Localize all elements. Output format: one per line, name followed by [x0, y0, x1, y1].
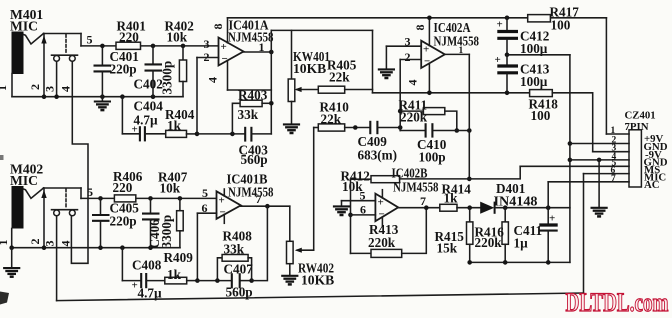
- CZ401 signal names: [644, 133, 668, 191]
- svg-text:1: 1: [0, 85, 9, 91]
- svg-text:220: 220: [119, 30, 139, 45]
- GND mid rail from C412/C413: [507, 55, 572, 263]
- svg-text:33k: 33k: [238, 107, 259, 122]
- svg-text:8: 8: [211, 24, 225, 30]
- M401 pin 3 wire: [56, 61, 58, 96]
- scan artifact bottom-left: [0, 292, 9, 305]
- svg-text:4: 4: [206, 77, 220, 83]
- M402 plug dashed line: [65, 189, 67, 209]
- CZ401 pin 6 wire (MIC): [584, 173, 630, 175]
- CZ401 pin 4 wire (GND): [570, 158, 629, 163]
- resistor R402: [179, 44, 186, 97]
- svg-text:220k: 220k: [400, 110, 428, 125]
- IC401A pin 8 (V+): [211, 18, 228, 43]
- M401 plug dashed line: [65, 35, 67, 55]
- CZ401 pin 2 wire (GND): [570, 143, 629, 145]
- svg-text:2: 2: [28, 239, 42, 245]
- resistor R418: [530, 90, 593, 152]
- resistor R414: [440, 204, 480, 211]
- IC402A pin 2 wire: [398, 60, 421, 131]
- ground (IC402B pin5): [333, 206, 350, 215]
- capacitor C410: [400, 123, 471, 137]
- svg-text:2: 2: [405, 50, 411, 64]
- svg-text:+: +: [495, 54, 501, 66]
- svg-text:15k: 15k: [437, 241, 458, 256]
- R412 left drop to inverting node: [348, 179, 353, 253]
- svg-text:1k: 1k: [444, 191, 459, 206]
- svg-text:220: 220: [113, 180, 133, 195]
- svg-text:3: 3: [204, 37, 210, 51]
- potentiometer RW402 wiper riser: [313, 128, 315, 251]
- resistor R407: [177, 196, 184, 248]
- feedback wire ch2: [197, 206, 267, 283]
- capacitor C402: [145, 44, 163, 97]
- svg-text:100p: 100p: [419, 150, 446, 165]
- svg-text:220p: 220p: [110, 214, 137, 229]
- svg-text:R409: R409: [164, 250, 194, 265]
- svg-text:10KB: 10KB: [293, 61, 326, 76]
- capacitor C405: [92, 196, 110, 248]
- MS wire from IC402A output node: [469, 166, 520, 179]
- svg-text:MIC: MIC: [10, 19, 38, 34]
- svg-text:+: +: [423, 44, 429, 56]
- svg-text:4.7µ: 4.7µ: [138, 286, 162, 301]
- ch2 ground rail: [9, 245, 180, 250]
- IC401A pin 2 wire: [195, 58, 219, 137]
- resistor R411: [400, 108, 459, 133]
- svg-text:AC: AC: [644, 179, 660, 191]
- ground (KW401): [283, 124, 300, 133]
- ground (IC402A pin3): [378, 69, 395, 78]
- svg-text:22k: 22k: [329, 70, 350, 85]
- resistor R409: [165, 277, 198, 284]
- CZ401 pin 1 wire (+9V): [606, 133, 629, 135]
- svg-text:2: 2: [28, 84, 42, 90]
- IC401B pin 6 wire: [195, 213, 216, 283]
- op-amp IC402B: [375, 190, 398, 226]
- resistor R408: [217, 255, 251, 281]
- svg-text:100µ: 100µ: [520, 74, 548, 89]
- svg-text:8: 8: [413, 25, 427, 31]
- wire output to KW401 feed: [271, 29, 372, 31]
- svg-text:NJM4558: NJM4558: [228, 30, 274, 45]
- resistor R403: [232, 100, 273, 134]
- IC402A pin 4 wire: [406, 63, 432, 95]
- capacitor C413 (electrolytic): [495, 53, 519, 96]
- ground (M402 pin1): [3, 248, 20, 277]
- M401 tip wire to node 5: [44, 34, 82, 46]
- svg-text:+: +: [549, 213, 555, 225]
- svg-text:R403: R403: [238, 87, 268, 102]
- ground (connector): [591, 208, 608, 217]
- svg-text:IN4148: IN4148: [494, 194, 538, 209]
- potentiometer KW401: [288, 30, 318, 124]
- connector CZ401: [629, 130, 641, 187]
- svg-text:100: 100: [551, 18, 571, 33]
- ground (ch1 input): [94, 97, 111, 110]
- M401 switch bar: [52, 54, 78, 56]
- svg-text:100: 100: [531, 108, 551, 123]
- svg-text:683(m): 683(m): [358, 148, 398, 163]
- svg-text:4: 4: [59, 241, 73, 247]
- svg-text:220k: 220k: [368, 235, 396, 250]
- svg-text:33k: 33k: [224, 242, 245, 257]
- svg-text:220k: 220k: [475, 235, 503, 250]
- M402 pin number labels: [0, 239, 73, 247]
- svg-text:MIC: MIC: [10, 173, 38, 188]
- svg-text:NJM4558: NJM4558: [228, 185, 274, 200]
- svg-text:5: 5: [87, 33, 93, 47]
- svg-text:C408: C408: [132, 258, 162, 273]
- ch1 ground rail: [12, 96, 183, 98]
- svg-text:560p: 560p: [241, 152, 268, 167]
- svg-text:3300p: 3300p: [160, 61, 175, 95]
- capacitor C408 (electrolytic): [122, 248, 164, 292]
- M401 pin 2 plug arrow: [41, 34, 46, 97]
- svg-text:3: 3: [43, 86, 57, 92]
- AGC bottom wire: [467, 260, 570, 265]
- svg-text:10k: 10k: [160, 181, 181, 196]
- main input wire ch1: [81, 45, 219, 47]
- resistor R406: [114, 195, 135, 202]
- svg-text:10KB: 10KB: [301, 273, 334, 288]
- capacitor C412 (electrolytic): [497, 15, 519, 54]
- svg-text:+: +: [497, 19, 503, 31]
- ground rail (connector GND): [598, 160, 600, 208]
- IC402B output wire: [398, 205, 440, 210]
- capacitor C406: [142, 196, 160, 248]
- svg-text:7: 7: [611, 174, 616, 184]
- svg-text:4.7µ: 4.7µ: [134, 113, 158, 128]
- MIC bus bottom rail: [57, 174, 584, 301]
- op-amp IC401B: [217, 189, 241, 223]
- scan artifact left edge: [0, 155, 4, 160]
- IC402A pin 3 ground wire: [386, 46, 421, 69]
- output/feedback vertical node: [270, 30, 272, 133]
- CZ401 pin 7 wire (AC): [548, 181, 629, 183]
- IC402B pin 5 ground wire: [342, 201, 376, 207]
- diode D401: [480, 202, 570, 214]
- CZ401 pin numbers: [611, 126, 617, 184]
- svg-text:1k: 1k: [167, 118, 182, 133]
- svg-text:+: +: [221, 41, 227, 53]
- IC402A pin 8 wire: [413, 15, 432, 45]
- svg-text:IC402B: IC402B: [392, 166, 428, 181]
- feedback wire ch1: [197, 132, 245, 137]
- resistor R416: [502, 208, 508, 263]
- svg-text:5: 5: [202, 186, 208, 200]
- capacitor C411 (electrolytic): [539, 208, 557, 263]
- IC401A pin 4 (V-): [206, 60, 272, 90]
- microphone jack M401: [12, 32, 44, 97]
- svg-text:NJM4558: NJM4558: [393, 180, 439, 195]
- IC401B output wire: [241, 204, 290, 209]
- ground (RW402): [281, 276, 298, 285]
- svg-text:NJM4558: NJM4558: [434, 34, 480, 49]
- V+ supply rail top: [228, 18, 607, 134]
- resistor R405: [318, 86, 344, 93]
- M402 switch contact 4: [69, 210, 75, 216]
- svg-text:DLTDL.com: DLTDL.com: [566, 288, 669, 317]
- M401 pin number labels: [0, 84, 73, 92]
- resistor R417: [528, 15, 551, 22]
- svg-text:C407: C407: [224, 262, 254, 277]
- resistor R404: [166, 130, 187, 137]
- wire IC401A out feed down to mixer line: [373, 30, 530, 92]
- svg-text:4: 4: [59, 86, 73, 92]
- resistor R413: [351, 208, 427, 258]
- potentiometer RW402: [287, 206, 314, 275]
- M401 pin 4 wire to M402 chain: [71, 61, 88, 263]
- M402 tip wire to node 5: [44, 188, 82, 198]
- M402 pin 3 wire to MIC bus: [56, 216, 58, 301]
- M401 switch contact 3: [54, 56, 60, 62]
- resistor R415: [467, 208, 473, 263]
- resistor R410: [314, 124, 369, 131]
- M401 switch contact 4: [69, 56, 75, 62]
- op-amp IC401A: [219, 38, 244, 66]
- junction dots ch1 rail: [42, 94, 156, 99]
- svg-text:220p: 220p: [110, 62, 137, 77]
- capacitor C401: [94, 44, 112, 97]
- svg-text:1k: 1k: [167, 267, 182, 282]
- resistor R412: [351, 176, 470, 183]
- resistor R401: [116, 42, 141, 49]
- M402 switch contact 3: [54, 210, 60, 216]
- svg-text:100µ: 100µ: [520, 41, 548, 56]
- IC401A output wire: [244, 50, 274, 55]
- svg-text:10k: 10k: [167, 30, 188, 45]
- capacitor C409: [370, 121, 402, 134]
- IC402A output wire down: [445, 54, 472, 181]
- wire R404 to node: [187, 133, 198, 135]
- AC wire to pin 7: [547, 182, 549, 208]
- CZ401 pin 3 wire (-9V): [593, 151, 629, 153]
- microphone jack M402: [12, 186, 44, 248]
- svg-text:5: 5: [87, 185, 93, 199]
- svg-text:C404: C404: [134, 99, 164, 114]
- svg-text:3300p: 3300p: [159, 215, 174, 249]
- svg-text:1: 1: [0, 240, 10, 246]
- svg-text:7PIN: 7PIN: [625, 121, 649, 133]
- main input wire ch2: [81, 197, 217, 199]
- M402 pin 2 plug arrow: [41, 188, 46, 248]
- IC402B pin 6 wire: [351, 214, 376, 216]
- M402 switch bar: [52, 209, 78, 211]
- CZ401 pin 5 wire (MS): [520, 165, 629, 167]
- svg-text:7: 7: [256, 192, 262, 206]
- capacitor C403: [245, 127, 271, 142]
- svg-text:1µ: 1µ: [514, 236, 529, 251]
- svg-text:CZ401: CZ401: [625, 110, 656, 122]
- capacitor C404 (electrolytic): [122, 97, 165, 142]
- op-amp IC402A: [421, 41, 445, 68]
- svg-text:1: 1: [611, 126, 616, 136]
- svg-text:22k: 22k: [321, 112, 342, 127]
- svg-text:4: 4: [406, 80, 420, 86]
- capacitor C407: [232, 273, 240, 288]
